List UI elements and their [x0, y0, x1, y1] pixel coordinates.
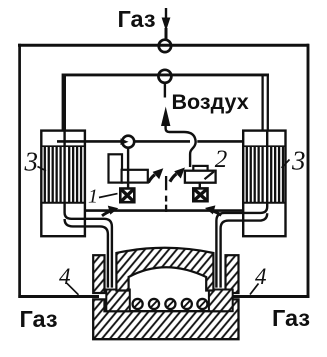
flow arrow right-pointing — [102, 206, 118, 216]
regulator 1 body vertical — [109, 154, 123, 182]
leader line 4 left — [67, 283, 79, 295]
linkage dashed axis — [165, 176, 167, 212]
tubes — [45, 147, 81, 202]
heating coil — [133, 299, 208, 309]
leader line 4 right — [250, 284, 259, 295]
hot pipe inner line — [65, 219, 108, 288]
air cross line middle segment — [134, 140, 190, 143]
left burner block — [106, 290, 130, 312]
air arrow up — [161, 83, 170, 126]
drive box 2 — [193, 188, 207, 201]
stem from blower to drive 1 — [127, 148, 129, 190]
svg-text:1: 1 — [88, 186, 98, 208]
right burner block — [209, 290, 233, 312]
gas distribution line — [86, 209, 244, 212]
tube sheet lines — [41, 145, 85, 147]
adjusting arrow right — [170, 168, 185, 182]
regulator 2 lever — [205, 172, 214, 180]
furnace arch (label 4) — [116, 248, 213, 291]
hot pipe from left recuperator to furnace (outer line) — [65, 131, 112, 288]
flow arrow into circle — [121, 138, 129, 145]
duct down to left recuperator — [62, 74, 66, 133]
outer enclosure left wall — [18, 44, 21, 298]
stem to drive 2 — [199, 183, 201, 189]
adjusting arrow left — [148, 168, 163, 182]
tube sheet lines — [243, 145, 285, 147]
air cross line left segment — [57, 140, 122, 143]
blower circle — [122, 136, 134, 148]
svg-text:Воздух: Воздух — [172, 90, 249, 114]
air cross line right segment — [197, 140, 243, 143]
gas valve circle on top line — [159, 40, 171, 52]
air pipe from regulator 2 with hop over cross line — [166, 125, 196, 168]
regulator 1 body horizontal — [122, 170, 148, 183]
duct down to right recuperator (double pipe) — [261, 74, 263, 133]
air duct top line — [62, 73, 269, 76]
gas inlet arrow down — [162, 8, 171, 40]
regulator 2 body — [185, 171, 216, 183]
svg-text:Газ: Газ — [118, 6, 156, 32]
leader line 3 left — [38, 167, 47, 171]
svg-text:3: 3 — [291, 146, 306, 176]
outer enclosure right wall — [307, 44, 310, 298]
flow arrow left-pointing — [205, 205, 221, 215]
gas line bottom right — [231, 295, 309, 298]
hot pipe outer line — [221, 213, 268, 287]
air valve circle — [158, 70, 171, 83]
regulator 2 top cap — [193, 166, 207, 172]
svg-text:2: 2 — [215, 146, 228, 173]
furnace hearth slab — [93, 299, 238, 339]
hot pipe from right recuperator to furnace (inner line) — [216, 131, 267, 288]
outer enclosure top wall — [18, 44, 309, 47]
recuperator 3 right: shell — [243, 131, 285, 237]
furnace left wall — [93, 255, 104, 293]
furnace right wall — [226, 255, 239, 293]
tubes — [247, 147, 283, 202]
leader line 1 — [99, 194, 118, 198]
drive box 1 — [120, 189, 134, 203]
recuperator 3 left: shell — [41, 131, 85, 237]
svg-text:Газ: Газ — [20, 306, 58, 332]
leader line 3 right — [282, 160, 290, 168]
gas line bottom left — [18, 295, 99, 298]
svg-text:Газ: Газ — [272, 305, 310, 331]
svg-text:3: 3 — [24, 147, 39, 177]
